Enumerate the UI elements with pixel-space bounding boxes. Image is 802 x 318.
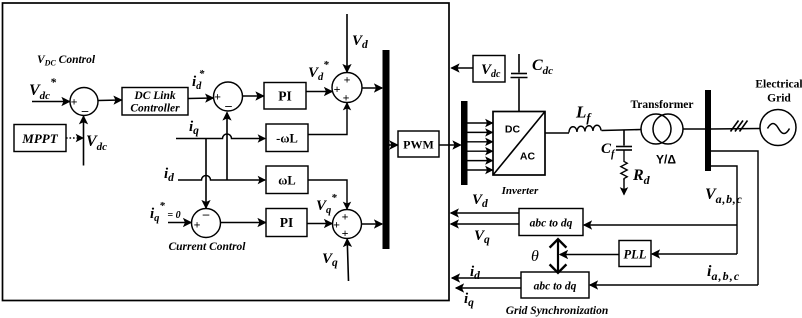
wire iq output — [456, 287, 521, 289]
wire -wL output up into S3 — [308, 103, 347, 135]
summing junction S2 — [214, 82, 243, 111]
svg-text:DC: DC — [505, 124, 521, 136]
svg-text:PLL: PLL — [624, 248, 647, 262]
block Vdc measurement — [473, 56, 505, 83]
svg-text:+: + — [334, 82, 341, 96]
wire Vdc box to control border — [452, 67, 474, 69]
wire S5 to bus bar — [362, 223, 383, 225]
svg-text:+: + — [344, 73, 351, 87]
block PI upper — [264, 83, 306, 110]
block abc to dq upper — [519, 209, 583, 236]
svg-text:Y/Δ: Y/Δ — [656, 153, 676, 167]
wire PLL output to theta — [560, 254, 619, 256]
svg-text:+: + — [194, 218, 201, 232]
summing junction S5 — [333, 210, 362, 239]
svg-text:Inverter: Inverter — [501, 185, 539, 197]
summing junction S1 — [70, 88, 98, 116]
bus bar 1 — [383, 50, 390, 249]
svg-text:+: + — [343, 91, 350, 105]
block PWM — [398, 131, 439, 157]
block abc to dq lower — [521, 272, 589, 298]
svg-text:–: – — [202, 206, 210, 221]
svg-text:+: + — [214, 90, 221, 104]
wire Vdc feedback stub — [83, 116, 85, 165]
block -wL — [266, 124, 308, 152]
wire id line with hop — [178, 176, 265, 181]
wire to PLL — [652, 253, 737, 255]
wire inverter output — [545, 132, 569, 134]
wire PWM to bar2 — [439, 144, 461, 146]
svg-text:Electrical: Electrical — [755, 79, 802, 91]
svg-text:Grid Synchronization: Grid Synchronization — [506, 305, 609, 317]
control section border box — [3, 3, 450, 301]
wire Vd output — [451, 212, 519, 214]
wire wL output down into S5 — [308, 180, 347, 209]
wire S2 to PI1 — [243, 95, 264, 97]
svg-text:PWM: PWM — [403, 138, 434, 152]
wire iq* input — [168, 222, 191, 224]
svg-text:DC Link: DC Link — [133, 90, 175, 102]
svg-text:+: + — [342, 226, 349, 240]
wire PI1 to S3 — [306, 91, 332, 93]
wire S1 to DC Link Controller — [98, 99, 122, 102]
wire bar3 to grid — [711, 128, 760, 131]
svg-text:PI: PI — [278, 89, 292, 104]
wire id feedback up to S2 — [226, 113, 228, 181]
MPPT block — [14, 125, 66, 152]
svg-text:Controller: Controller — [130, 103, 180, 115]
wire iq line with hop — [176, 134, 265, 139]
wire DC Link Controller to S2 — [188, 97, 213, 100]
wire Vabc sensing path — [711, 166, 737, 254]
svg-text:+: + — [342, 210, 349, 224]
svg-text:-ωL: -ωL — [276, 132, 298, 146]
svg-text:θ: θ — [531, 248, 539, 265]
wire S4 to PI2 — [221, 222, 266, 224]
capacitor Cf branch — [623, 131, 625, 146]
inverter U1 — [493, 112, 545, 176]
inductor Lf — [569, 125, 601, 132]
wire PI2 to S5 — [307, 223, 332, 225]
summing junction S3 — [332, 73, 362, 103]
svg-text:–: – — [224, 98, 232, 113]
resistor Rd — [621, 151, 627, 181]
wire Vq output — [451, 223, 519, 225]
svg-text:Current Control: Current Control — [168, 241, 246, 253]
wire iabc into abc-dq 2 — [590, 284, 758, 286]
wire Vdc* input — [32, 101, 70, 103]
wire iabc sensing path — [711, 151, 758, 285]
block DC Link Controller — [122, 88, 188, 116]
three-phase slashes — [731, 121, 748, 132]
svg-text:+: + — [333, 218, 340, 232]
svg-text:AC: AC — [520, 151, 536, 163]
wire Vq stub into S5 — [347, 239, 348, 281]
svg-text:+: + — [71, 95, 78, 109]
wires gate signals into inverter — [468, 123, 493, 170]
wire transformer to bus bar 3 — [683, 128, 705, 130]
block PLL — [619, 241, 651, 267]
svg-text:Grid: Grid — [767, 93, 791, 105]
svg-text:abc to dq: abc to dq — [534, 281, 577, 293]
wire dotted MPPT to Vdc — [66, 137, 83, 139]
block PI lower — [266, 209, 307, 237]
wire S3 to bus bar — [362, 87, 382, 89]
wire theta double arrow — [557, 239, 559, 273]
capacitor Cdc — [518, 54, 520, 73]
wire iq down to S4 — [205, 139, 207, 209]
wire Vabc into abc-dq 1 — [584, 224, 737, 226]
block wL — [266, 166, 308, 194]
wire Vd stub into S3 — [346, 14, 348, 72]
svg-text:–: – — [81, 103, 89, 118]
bus bar 2 — [461, 101, 468, 185]
wire id output — [452, 277, 521, 279]
svg-text:abc to dq: abc to dq — [530, 218, 573, 230]
wire bar1 to PWM — [390, 144, 398, 146]
svg-text:MPPT: MPPT — [21, 131, 58, 146]
bus bar 3 — [705, 90, 711, 171]
summing junction S4 — [192, 209, 221, 238]
wire Lf to transformer — [602, 130, 642, 131]
svg-text:ωL: ωL — [278, 174, 295, 188]
svg-text:PI: PI — [280, 215, 294, 230]
svg-text:Transformer: Transformer — [630, 99, 693, 111]
